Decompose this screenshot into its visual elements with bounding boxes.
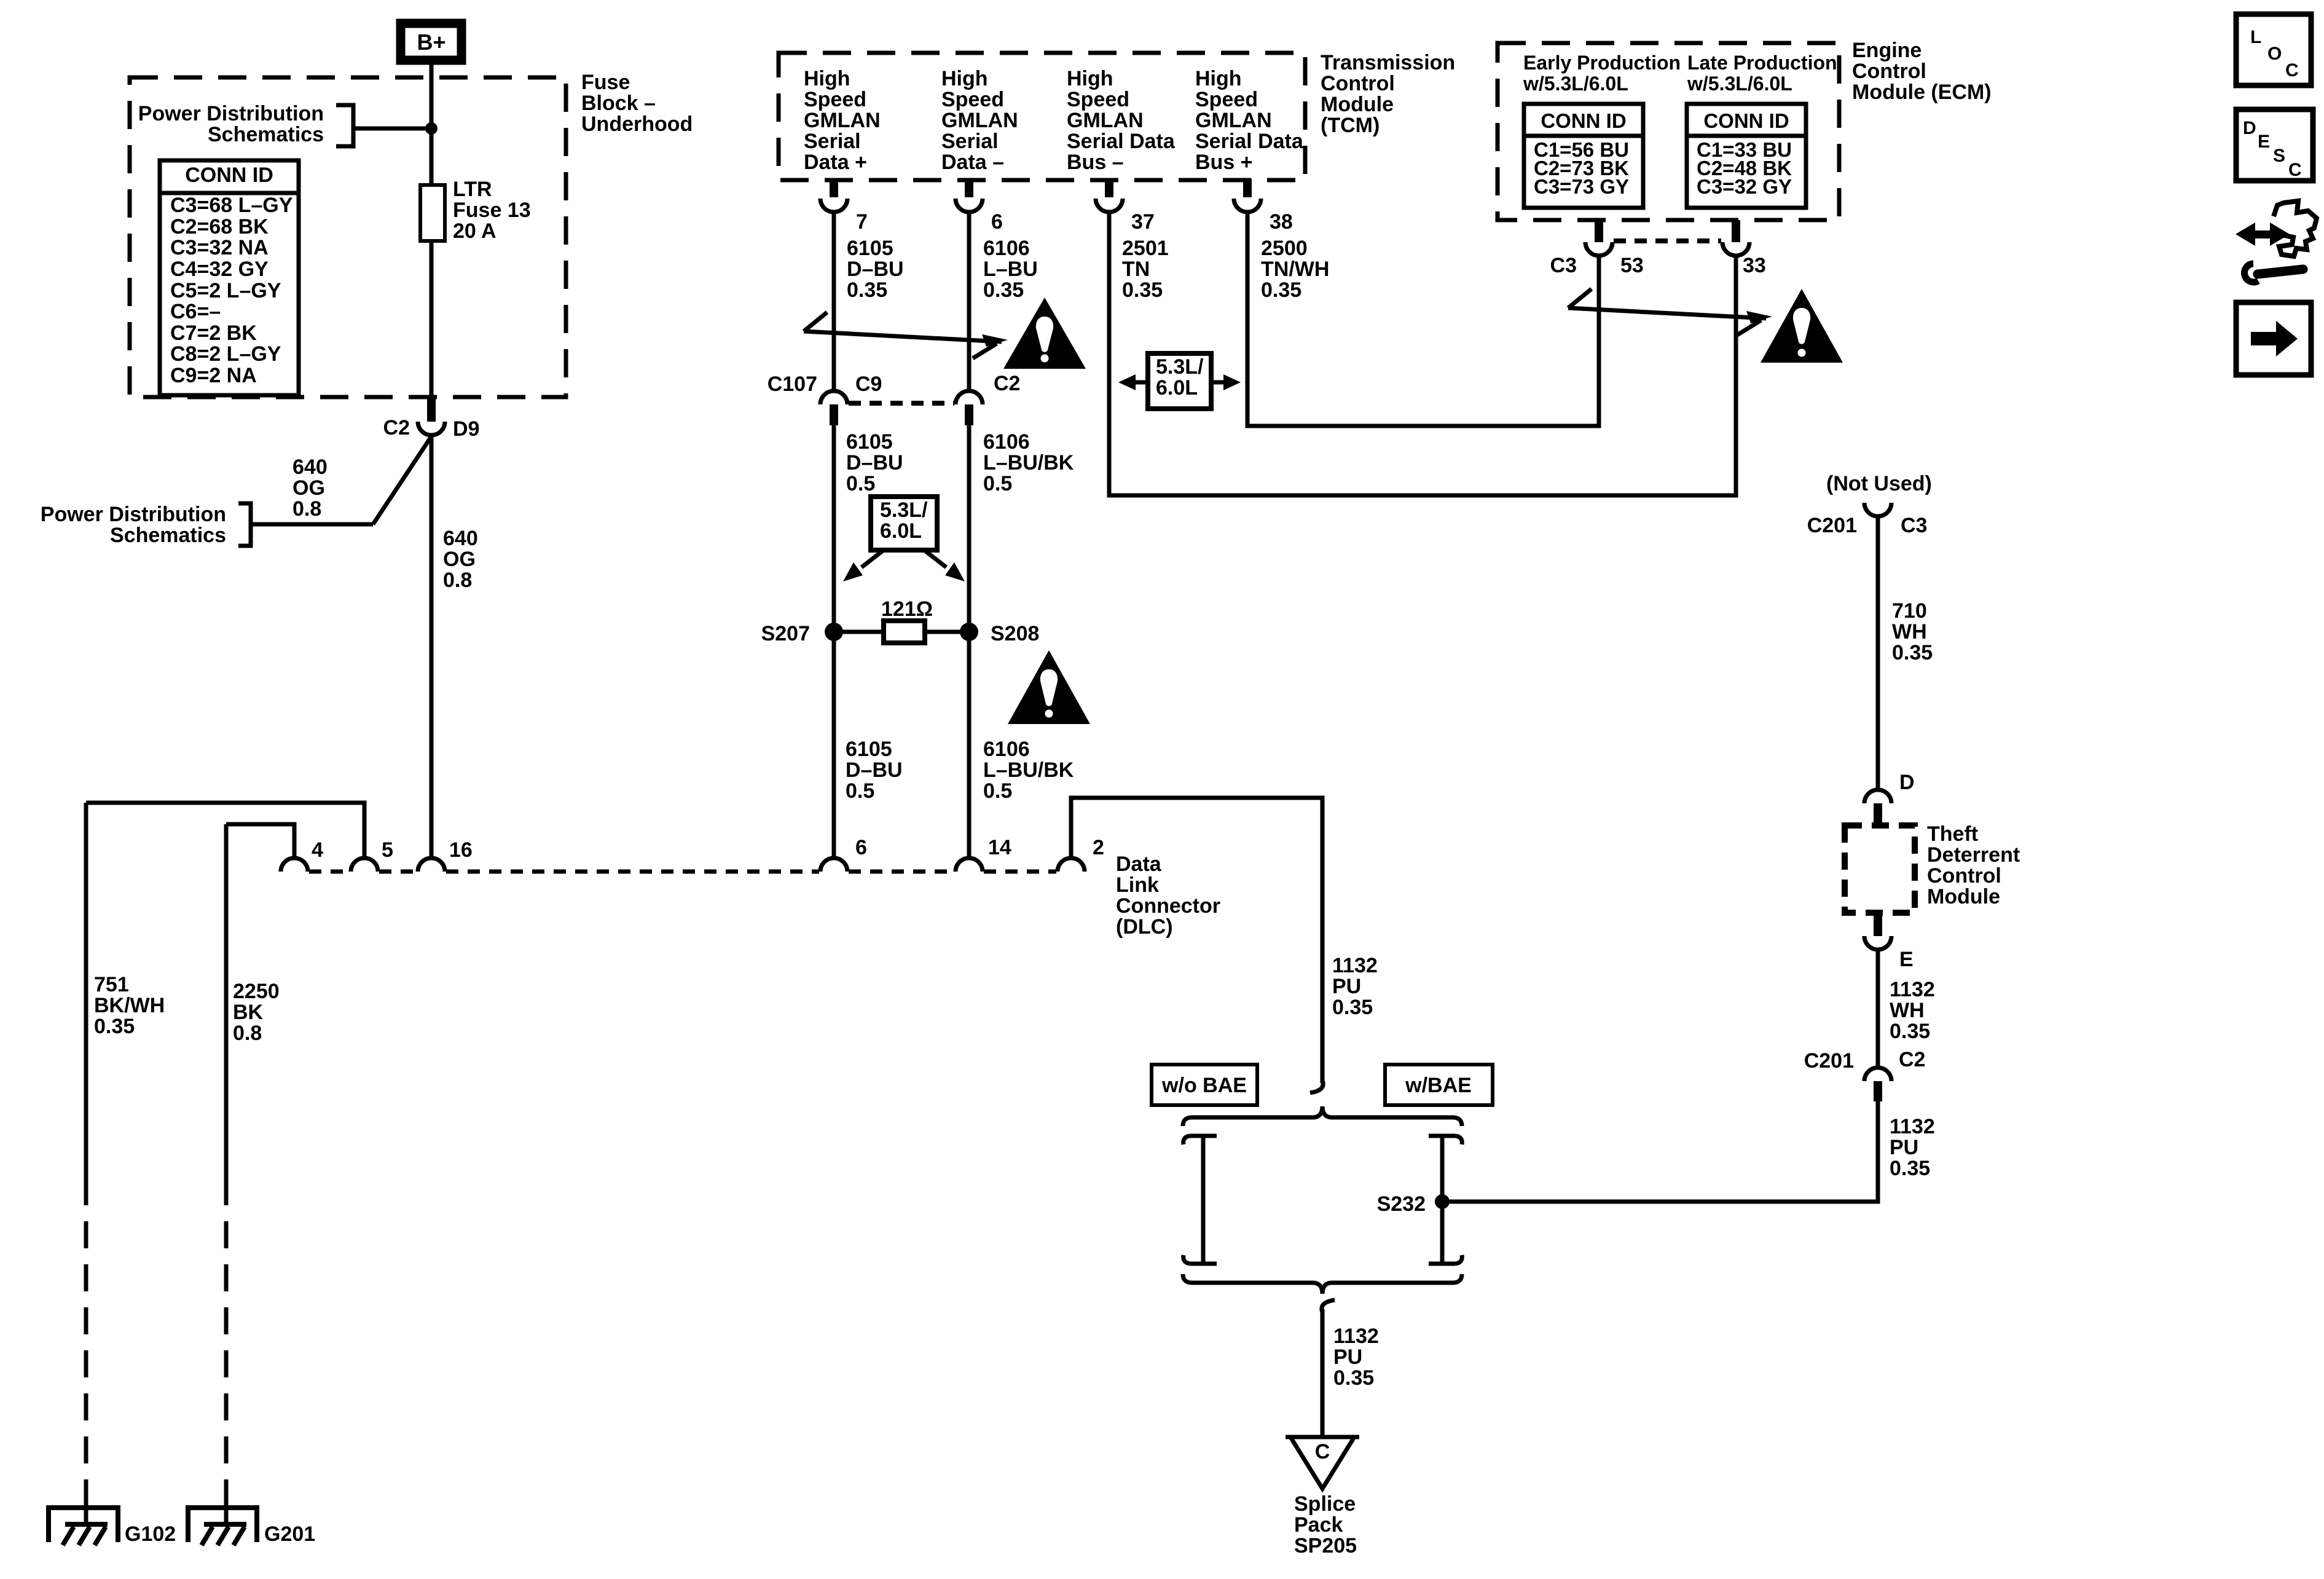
callout 5.3L/6.0L (TCM bus wires) (1118, 353, 1241, 409)
option box w/o BAE (1152, 1065, 1257, 1105)
wire 2250 BK ground run (solid) (224, 824, 229, 1178)
svg-text:w/o BAE: w/o BAE (1161, 1074, 1247, 1097)
connector theft module pin E (1864, 916, 1891, 950)
svg-text:C: C (2288, 160, 2302, 180)
svg-text:B+: B+ (417, 30, 446, 55)
svg-text:TN: TN (1122, 258, 1150, 281)
connector theft module pin D (1864, 790, 1891, 824)
svg-text:Serial Data: Serial Data (1067, 130, 1176, 153)
svg-text:GMLAN: GMLAN (941, 109, 1018, 132)
warning triangle (ECM data wires) (1761, 289, 1843, 363)
svg-text:6105: 6105 (846, 430, 893, 454)
svg-text:D: D (1899, 771, 1915, 794)
svg-text:0.8: 0.8 (233, 1022, 262, 1045)
svg-text:D9: D9 (453, 417, 479, 441)
label wire 6106 L-BU/BK 0.5 (lower) (983, 738, 1074, 803)
svg-text:C2: C2 (994, 372, 1020, 395)
svg-text:C3: C3 (1550, 254, 1577, 277)
svg-text:Data –: Data – (941, 151, 1004, 174)
svg-text:L–BU/BK: L–BU/BK (983, 451, 1074, 474)
svg-text:6: 6 (991, 210, 1003, 234)
svg-text:S208: S208 (991, 622, 1039, 645)
svg-text:6: 6 (855, 836, 867, 859)
svg-text:1132: 1132 (1332, 954, 1378, 977)
connector DLC pin 16 arc (418, 858, 445, 872)
svg-text:CONN ID: CONN ID (185, 163, 273, 187)
connector C107 C9 (in-line) (820, 391, 847, 425)
warning triangle (splice area) (1008, 650, 1090, 724)
svg-text:C: C (1315, 1440, 1330, 1463)
svg-text:(DLC): (DLC) (1116, 915, 1173, 939)
wire 751 BK/WH ground run (dashed) (84, 1178, 88, 1503)
svg-text:PU: PU (1890, 1136, 1918, 1159)
svg-text:0.5: 0.5 (983, 472, 1012, 495)
svg-text:Control: Control (1321, 72, 1395, 95)
svg-text:Speed: Speed (1067, 88, 1129, 111)
wire dashed between C9 and C2 (849, 401, 954, 406)
label wire 1132 PU 0.35 (DLC leg) (1332, 954, 1378, 1019)
svg-text:Module (ECM): Module (ECM) (1852, 81, 1992, 104)
bracket to Power Distribution Schematics (upper) (336, 105, 353, 146)
svg-text:4: 4 (312, 838, 323, 862)
svg-text:0.8: 0.8 (443, 569, 472, 592)
svg-text:Transmission: Transmission (1321, 51, 1455, 74)
svg-text:High: High (804, 67, 850, 90)
svg-text:D–BU: D–BU (846, 758, 903, 782)
label Early Production w/5.3L/6.0L (1523, 52, 1681, 95)
svg-text:5.3L/: 5.3L/ (880, 498, 928, 522)
svg-text:L–BU/BK: L–BU/BK (983, 758, 1074, 782)
wire break hook (below lower brace) (1322, 1300, 1335, 1312)
svg-text:TN/WH: TN/WH (1261, 258, 1329, 281)
svg-text:0.35: 0.35 (1890, 1020, 1930, 1043)
svg-text:Engine: Engine (1852, 39, 1922, 62)
ground G102 (49, 1508, 118, 1545)
svg-text:Power Distribution: Power Distribution (41, 503, 226, 526)
label Transmission Control Module (TCM) (1321, 51, 1455, 137)
svg-text:Theft: Theft (1927, 822, 1978, 846)
svg-text:Data: Data (1116, 853, 1162, 876)
svg-text:640: 640 (292, 455, 328, 479)
svg-text:OG: OG (292, 476, 325, 500)
splice pack triangle C (1286, 1437, 1359, 1489)
bracket w/o BAE branch (1184, 1136, 1217, 1264)
svg-text:GMLAN: GMLAN (1195, 109, 1272, 132)
label Splice Pack SP205 (1294, 1492, 1357, 1557)
svg-text:Power Distribution: Power Distribution (138, 102, 324, 125)
module Engine Control Module ECM (dashed box) (1498, 43, 1839, 220)
svg-text:16: 16 (449, 838, 473, 862)
svg-text:C201: C201 (1804, 1049, 1854, 1073)
svg-text:Block –: Block – (581, 92, 656, 115)
svg-text:Data +: Data + (804, 151, 867, 174)
module Theft Deterrent Control Module (dashed box) (1845, 825, 1915, 913)
svg-text:PU: PU (1332, 975, 1361, 998)
svg-text:Speed: Speed (941, 88, 1004, 111)
label wire 2501 TN 0.35 (1122, 237, 1169, 302)
svg-text:(TCM): (TCM) (1321, 114, 1380, 137)
warning triangle (GMLAN data wires) (1003, 297, 1086, 369)
svg-text:WH: WH (1890, 999, 1925, 1022)
connector C2 D9 (fuse block to harness) (383, 399, 480, 441)
label wire 1132 PU 0.35 (right leg) (1890, 1115, 1935, 1180)
connector ECM pin 53 (1585, 220, 1612, 256)
connector C201 C3 (not used) (1864, 503, 1891, 516)
label wire 640 OG 0.8 (branch) (292, 455, 328, 521)
connector ECM pin 33 (1722, 220, 1749, 256)
svg-text:w/5.3L/6.0L: w/5.3L/6.0L (1523, 73, 1628, 95)
bracket to Power Distribution Schematics (lower) (238, 503, 251, 546)
svg-text:BK/WH: BK/WH (94, 994, 165, 1017)
svg-text:C8=2 L–GY: C8=2 L–GY (170, 342, 281, 366)
svg-text:D: D (2243, 118, 2256, 138)
svg-text:WH: WH (1892, 620, 1927, 644)
svg-text:GMLAN: GMLAN (804, 109, 881, 132)
svg-text:OG: OG (443, 548, 476, 571)
svg-text:Module: Module (1927, 885, 2000, 908)
svg-text:0.35: 0.35 (983, 278, 1024, 302)
svg-text:6106: 6106 (983, 738, 1030, 761)
svg-text:L–BU: L–BU (983, 258, 1038, 281)
fuse LTR Fuse 13 20 A (420, 185, 445, 241)
label Engine Control Module (ECM) (1852, 39, 1992, 104)
svg-text:640: 640 (443, 527, 478, 550)
node junction on B+ feed (425, 122, 438, 135)
wire 2501 TN TCM pin37 to ECM pin33 (1109, 212, 1736, 495)
icon DESC box (2236, 109, 2313, 181)
connector TCM pin 6 (956, 179, 983, 212)
svg-text:Schematics: Schematics (110, 524, 226, 547)
svg-text:w/5.3L/6.0L: w/5.3L/6.0L (1687, 73, 1792, 95)
svg-text:PU: PU (1333, 1345, 1362, 1369)
svg-text:S207: S207 (761, 622, 810, 645)
label Late Production w/5.3L/6.0L (1687, 52, 1837, 95)
wire 710 WH to theft module (1876, 516, 1880, 790)
svg-text:53: 53 (1620, 254, 1644, 277)
svg-text:Speed: Speed (804, 88, 866, 111)
wire 2250 BK ground run (dashed) (224, 1178, 229, 1503)
svg-text:Early Production: Early Production (1523, 52, 1681, 74)
wire 6105 C107 to S207 (832, 425, 836, 632)
svg-text:O: O (2267, 44, 2282, 64)
splice S208 (960, 623, 978, 641)
svg-text:5.3L/: 5.3L/ (1156, 355, 1204, 379)
svg-text:0.35: 0.35 (847, 278, 887, 302)
ground G201 (188, 1508, 257, 1545)
svg-text:D–BU: D–BU (846, 451, 903, 474)
svg-text:GMLAN: GMLAN (1067, 109, 1144, 132)
svg-text:E: E (1899, 948, 1914, 971)
callout 5.3L/6.0L (engine option, splices) (843, 497, 965, 581)
svg-text:0.5: 0.5 (846, 779, 874, 803)
svg-text:Serial: Serial (941, 130, 999, 153)
module Fuse Block - Underhood (dashed box) (130, 77, 566, 397)
svg-text:High: High (1195, 67, 1242, 90)
svg-text:LTR: LTR (453, 178, 492, 201)
svg-text:C3=32 GY: C3=32 GY (1697, 175, 1792, 198)
table CONN ID (early production) (1524, 104, 1643, 208)
svg-text:D–BU: D–BU (847, 258, 904, 281)
brace upper (BAE options) (1183, 1106, 1462, 1126)
connector C201 C2 (in-line) (1864, 1068, 1891, 1101)
svg-text:C9=2 NA: C9=2 NA (170, 364, 257, 387)
svg-text:C2: C2 (383, 416, 410, 439)
svg-text:0.35: 0.35 (1890, 1157, 1930, 1180)
svg-text:0.35: 0.35 (1892, 641, 1933, 664)
svg-text:2250: 2250 (233, 980, 280, 1003)
svg-text:1132: 1132 (1890, 1115, 1935, 1138)
svg-text:Late Production: Late Production (1687, 52, 1837, 74)
wire 6105 TCM pin7 to C107 (832, 212, 836, 392)
connector DLC pin 6 arc (820, 858, 847, 872)
svg-text:C107: C107 (767, 372, 817, 396)
connector DLC pin 4 arc (281, 858, 308, 872)
svg-text:C: C (2285, 60, 2299, 81)
svg-text:Serial: Serial (804, 130, 861, 153)
svg-text:14: 14 (988, 836, 1011, 859)
splice S232 (1435, 1194, 1450, 1209)
svg-text:G102: G102 (125, 1522, 176, 1546)
label wire 6106 L-BU 0.35 (983, 237, 1038, 302)
wire 6106 TCM pin6 to C2 (967, 212, 972, 392)
svg-text:0.5: 0.5 (846, 472, 875, 495)
icon forward arrow box (2236, 302, 2311, 375)
wire DLC bus dashed segments (309, 870, 1056, 874)
label wire 2500 TN/WH 0.35 (1261, 237, 1329, 302)
svg-text:Splice: Splice (1294, 1492, 1356, 1516)
svg-text:C4=32 GY: C4=32 GY (170, 258, 269, 281)
connector DLC pin 5 arc (351, 858, 378, 872)
svg-text:0.35: 0.35 (94, 1015, 135, 1038)
svg-text:w/BAE: w/BAE (1405, 1074, 1472, 1097)
svg-text:Bus +: Bus + (1195, 151, 1253, 174)
svg-text:Fuse 13: Fuse 13 (453, 199, 531, 222)
svg-text:C9: C9 (855, 372, 882, 396)
option box w/BAE (1385, 1065, 1493, 1105)
wire fuse to connector C2/D9 (430, 241, 434, 400)
wire 6106 S208 to DLC pin 14 (967, 632, 972, 859)
svg-text:High: High (941, 67, 988, 90)
svg-text:C2=68 BK: C2=68 BK (170, 215, 269, 238)
svg-text:6106: 6106 (983, 237, 1030, 260)
svg-text:710: 710 (1892, 599, 1927, 623)
resistor 121 ohm terminating (834, 621, 969, 643)
svg-text:E: E (2258, 132, 2270, 152)
svg-text:121Ω: 121Ω (881, 597, 933, 621)
label Power Distribution Schematics (upper) (138, 102, 324, 146)
svg-text:Control: Control (1852, 60, 1926, 83)
wire 1132 PU from C201 C2 to S232 (1442, 1101, 1878, 1202)
svg-text:Serial Data: Serial Data (1195, 130, 1304, 153)
connector TCM pin 37 (1096, 179, 1123, 212)
svg-text:CONN ID: CONN ID (1541, 109, 1626, 132)
svg-text:751: 751 (94, 973, 129, 996)
wire diagonal branch to power distribution (373, 436, 431, 524)
svg-text:Module: Module (1321, 93, 1394, 116)
svg-text:1132: 1132 (1890, 978, 1935, 1001)
wire DLC pin 5 to left trunk (86, 803, 364, 858)
svg-text:6105: 6105 (846, 738, 892, 761)
label wire 6105 D-BU 0.5 (lower) (846, 738, 903, 803)
svg-text:Speed: Speed (1195, 88, 1258, 111)
svg-text:1132: 1132 (1333, 1325, 1379, 1348)
svg-text:Deterrent: Deterrent (1927, 843, 2020, 867)
svg-text:6106: 6106 (983, 430, 1030, 454)
svg-text:S: S (2273, 146, 2285, 166)
svg-text:Control: Control (1927, 864, 2001, 888)
svg-text:(Not Used): (Not Used) (1826, 472, 1932, 495)
svg-text:0.35: 0.35 (1122, 278, 1163, 302)
label Fuse Block - Underhood (581, 71, 693, 136)
label wire 710 WH 0.35 (1892, 599, 1933, 664)
wire horizontal to bracket (lower power distribution) (251, 522, 373, 527)
svg-text:C6=–: C6=– (170, 300, 221, 323)
svg-text:6.0L: 6.0L (1156, 376, 1198, 400)
svg-text:38: 38 (1270, 210, 1293, 234)
svg-text:L: L (2250, 27, 2261, 47)
wire 751 BK/WH into ground (84, 1503, 88, 1523)
wire B+ to fuse (430, 60, 434, 185)
svg-text:2: 2 (1093, 836, 1104, 859)
svg-text:0.35: 0.35 (1333, 1366, 1374, 1390)
wire 1132 WH pin E to C201 C2 (1876, 950, 1880, 1068)
splice S207 (825, 623, 843, 641)
svg-text:6.0L: 6.0L (880, 519, 922, 543)
svg-text:Schematics: Schematics (208, 123, 324, 146)
label wire 751 BK/WH 0.35 (94, 973, 165, 1038)
svg-text:0.5: 0.5 (983, 779, 1012, 803)
label TCM pin names (804, 67, 1304, 174)
connector C2 (in-line, 6106) (956, 391, 983, 425)
svg-text:Bus –: Bus – (1067, 151, 1124, 174)
wire 640 OG trunk down to DLC pin 16 (430, 434, 434, 859)
label LTR Fuse 13 20 A (453, 178, 531, 243)
svg-text:C3=68 L–GY: C3=68 L–GY (170, 194, 293, 217)
wire DLC pin 2 to BAE branch (1071, 798, 1322, 1083)
connector DLC pin 14 arc (956, 858, 983, 872)
connector DLC pin 2 arc (1058, 858, 1085, 872)
icon service vehicle (arrow and wrench) (2236, 201, 2317, 282)
connector TCM pin 38 (1234, 179, 1261, 212)
wire 6106 C2 to S208 (967, 425, 972, 632)
svg-text:BK: BK (233, 1001, 264, 1024)
svg-text:Connector: Connector (1116, 894, 1220, 918)
svg-text:C3=73 GY: C3=73 GY (1534, 175, 1629, 198)
svg-text:0.35: 0.35 (1332, 996, 1373, 1019)
svg-text:Pack: Pack (1294, 1513, 1343, 1537)
wire 2500 TN/WH TCM pin38 to ECM pin53 (1247, 212, 1599, 426)
brace lower (BAE options) (1183, 1274, 1462, 1294)
svg-text:Fuse: Fuse (581, 71, 630, 94)
svg-text:0.35: 0.35 (1261, 278, 1301, 302)
svg-text:High: High (1067, 67, 1113, 90)
svg-text:C7=2 BK: C7=2 BK (170, 321, 257, 345)
module Transmission Control Module TCM (dashed box) (779, 53, 1305, 180)
label wire 1132 WH 0.35 (1890, 978, 1935, 1043)
svg-text:C2: C2 (1899, 1048, 1925, 1071)
svg-text:2500: 2500 (1261, 237, 1308, 260)
wire break hook (top of BAE braces) (1310, 1081, 1323, 1093)
twisted pair symbol (2501/2500) (1568, 289, 1772, 335)
svg-text:Link: Link (1116, 873, 1159, 897)
table CONN ID (late production) (1687, 104, 1806, 208)
label Theft Deterrent Control Module (1927, 822, 2020, 908)
svg-text:CONN ID: CONN ID (1703, 109, 1789, 132)
svg-text:Underhood: Underhood (581, 112, 693, 136)
wire DLC pin 4 to inner trunk (226, 824, 294, 858)
icon LOC box (2236, 14, 2311, 85)
wire from bracket to B+ feed (353, 127, 431, 131)
label wire 1132 PU 0.35 (splice leg) (1333, 1325, 1379, 1390)
svg-text:37: 37 (1131, 210, 1155, 234)
svg-text:20 A: 20 A (453, 219, 497, 243)
connector TCM pin 7 (820, 179, 847, 212)
label wire 2250 BK 0.8 (233, 980, 280, 1045)
wire 2250 BK into ground (224, 1503, 229, 1523)
wire 751 BK/WH ground run (solid) (84, 803, 88, 1178)
label wire 6105 D-BU 0.5 (upper) (846, 430, 903, 495)
twisted pair symbol (6105/6106) (804, 312, 1008, 358)
svg-text:2501: 2501 (1122, 237, 1169, 260)
svg-text:C201: C201 (1807, 514, 1857, 537)
svg-text:7: 7 (856, 210, 868, 234)
wire dashed between ECM pins 53 and 33 (1614, 238, 1721, 243)
battery feed B+ box (401, 23, 461, 60)
svg-text:C3: C3 (1901, 514, 1927, 537)
svg-text:G201: G201 (264, 1522, 315, 1546)
label wire 6106 L-BU/BK 0.5 (upper) (983, 430, 1074, 495)
svg-text:6105: 6105 (847, 237, 893, 260)
svg-text:33: 33 (1743, 254, 1766, 277)
label Data Link Connector (DLC) (1116, 853, 1220, 939)
svg-text:0.8: 0.8 (292, 497, 321, 521)
wire 1132 PU to splice pack (1321, 1309, 1325, 1437)
bracket w/BAE branch (1429, 1136, 1462, 1264)
label wire 640 OG 0.8 (trunk) (443, 527, 478, 592)
wire 6105 S207 to DLC pin 6 (832, 632, 836, 859)
svg-text:5: 5 (382, 838, 393, 862)
svg-text:C3=32 NA: C3=32 NA (170, 236, 269, 259)
svg-text:SP205: SP205 (1294, 1534, 1357, 1557)
table CONN ID (fuse block) (160, 160, 299, 395)
label Power Distribution Schematics (lower) (41, 503, 226, 547)
svg-text:S232: S232 (1377, 1192, 1426, 1216)
svg-text:C5=2 L–GY: C5=2 L–GY (170, 279, 281, 302)
label wire 6105 D-BU 0.35 (847, 237, 904, 302)
